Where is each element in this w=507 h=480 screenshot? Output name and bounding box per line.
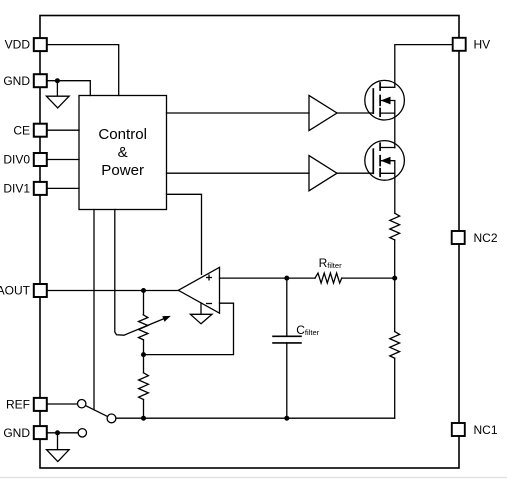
transistor Q2 (low-side NMOS) [365, 141, 405, 181]
wire Control to switch lever [93, 210, 95, 410]
switch pole contact [107, 414, 116, 423]
wire Q1 source to Q2 drain [394, 113, 396, 148]
svg-text:NC1: NC1 [474, 423, 498, 437]
buffer driver B [309, 156, 337, 191]
wire upper resistor to filter node [394, 240, 396, 278]
svg-text:GND: GND [3, 74, 30, 88]
pin DIV1 [3, 182, 46, 196]
wire feedback node to lower-left resistor [143, 355, 145, 373]
pin GND top [3, 74, 46, 88]
wire VDD to Control block [48, 45, 119, 96]
junction on GND wire [55, 78, 60, 83]
resistor lower-left [139, 373, 149, 400]
wire REF to switch [48, 403, 78, 405]
pin NC1 [452, 423, 498, 437]
junction Cfilter to rail [284, 416, 289, 421]
pin HV [453, 38, 490, 52]
resistor lower divider [390, 332, 400, 359]
wire potentiometer top lead [143, 291, 145, 315]
wire DIV1 to Control block [48, 187, 79, 189]
junction on GND2 wire [55, 430, 60, 435]
wire op-amp inverting input feedback [144, 303, 234, 354]
junction filter node [392, 276, 397, 281]
ground symbol at op-amp [190, 303, 212, 324]
wire Cfilter node to Rfilter [287, 277, 315, 279]
resistor Rfilter [315, 273, 342, 283]
wire DIV0 to Control block [48, 159, 79, 161]
potentiometer wiper arrow from Control [115, 210, 171, 336]
svg-text:DIV0: DIV0 [3, 153, 30, 167]
wire lower-left resistor to rail [143, 400, 145, 419]
capacitor Cfilter [273, 278, 301, 418]
junction Cfilter node [284, 276, 289, 281]
wire potentiometer bottom lead [143, 340, 145, 355]
pin DIV0 [3, 153, 46, 167]
pin REF [6, 398, 47, 412]
resistor upper divider [390, 213, 400, 240]
wire Control to driver B [167, 172, 310, 174]
junction rail to divider branch [141, 416, 146, 421]
pin AOUT [0, 284, 47, 298]
svg-text:CE: CE [13, 123, 30, 137]
potentiometer resistor [139, 315, 148, 340]
bottom analog rail [116, 417, 395, 419]
wire Control to op-amp supply [167, 194, 202, 274]
junction pot bottom feedback node [141, 352, 146, 357]
pin GND bottom [3, 426, 46, 440]
ground symbol at GND2 pin [47, 433, 70, 462]
wire Rfilter to filter node [342, 277, 395, 279]
junction AOUT wire to potentiometer [141, 288, 146, 293]
svg-text:Rfilter: Rfilter [319, 256, 342, 270]
transistor Q1 (high-side NMOS) [365, 80, 405, 120]
wire lower resistor to bottom rail [394, 358, 396, 418]
svg-text:HV: HV [474, 38, 491, 52]
wire filter node to lower divider resistor [394, 278, 396, 331]
wire GND2 to switch contact [48, 432, 78, 434]
svg-text:REF: REF [6, 398, 30, 412]
buffer driver A [309, 95, 337, 130]
pin NC2 [452, 231, 498, 245]
wire Q2 source to upper divider resistor [394, 173, 396, 213]
ground symbol at GND pin [46, 81, 69, 108]
wire GND to Control block [48, 81, 91, 96]
IC package boundary [40, 16, 459, 469]
svg-text:GND: GND [3, 426, 30, 440]
switch contact at GND2 [78, 429, 86, 437]
block Control & Power [79, 96, 167, 210]
switch contact at REF [78, 400, 86, 408]
switch lever [86, 406, 108, 417]
wire op-amp noninverting input to Cfilter node [220, 277, 287, 279]
svg-text:Cfilter: Cfilter [296, 323, 319, 337]
svg-text:AOUT: AOUT [0, 284, 31, 298]
wire driver B to Q2 gate [337, 172, 373, 174]
svg-text:&: & [118, 144, 128, 161]
wire Control to driver A [167, 112, 310, 114]
pin CE [13, 123, 46, 137]
svg-text:NC2: NC2 [474, 231, 498, 245]
svg-text:Control: Control [98, 126, 147, 143]
svg-text:DIV1: DIV1 [3, 182, 30, 196]
svg-text:VDD: VDD [5, 37, 31, 51]
wire Q1 drain to HV pin [395, 45, 452, 88]
pin VDD [5, 37, 47, 51]
wire driver A to Q1 gate [337, 112, 373, 114]
wire CE to Control block [48, 129, 79, 131]
wire op-amp output to AOUT [48, 290, 179, 292]
op-amp error amplifier [178, 267, 219, 313]
svg-text:Power: Power [101, 162, 144, 179]
